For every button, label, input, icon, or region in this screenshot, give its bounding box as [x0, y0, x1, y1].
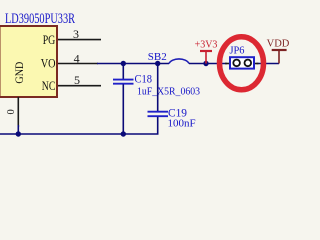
wire SB2 to JP6: [189, 63, 227, 65]
pin 5 (NC) stub: [58, 85, 101, 87]
svg-text:C18: C18: [135, 72, 153, 86]
svg-text:0: 0: [6, 109, 17, 114]
bottom ground rail wire: [0, 133, 159, 135]
svg-text:NC: NC: [42, 79, 56, 93]
junction dot +3V3: [203, 61, 208, 66]
pin 4 (VO): [58, 63, 98, 65]
junction dot C18/rail: [121, 131, 126, 136]
svg-text:+3V3: +3V3: [195, 40, 218, 51]
capacitor C18: [122, 64, 124, 80]
jumper JP6 pin stubs: [225, 63, 230, 65]
capacitor C19: [157, 64, 159, 112]
GND pin to rail wire: [17, 125, 19, 134]
svg-text:PG: PG: [43, 33, 56, 47]
svg-text:GND: GND: [14, 62, 26, 84]
svg-text:VDD: VDD: [267, 39, 290, 50]
power port VDD: [278, 50, 280, 64]
solder bridge SB2 (arc): [169, 59, 189, 64]
svg-text:1uF_X5R_0603: 1uF_X5R_0603: [137, 86, 200, 98]
svg-text:100nF: 100nF: [168, 118, 196, 130]
svg-text:VO: VO: [41, 56, 56, 70]
wire JP6 to VDD: [257, 63, 280, 65]
svg-text:LD39050PU33R: LD39050PU33R: [5, 11, 75, 27]
junction dot VO/C18: [121, 61, 126, 66]
junction dot GND/rail: [16, 131, 21, 136]
pin 3 (PG) stub: [58, 39, 101, 41]
power port +3V3: [205, 51, 207, 64]
JP6 post 2: [245, 60, 252, 67]
regulator U1 body (LD39050PU33R): [0, 26, 57, 97]
red annotation ellipse around JP6: [220, 37, 264, 90]
JP6 post 1: [233, 60, 240, 67]
jumper JP6 body: [230, 57, 254, 68]
wire VO to SB2: [97, 63, 169, 65]
junction dot C19 top: [155, 61, 160, 66]
svg-text:JP6: JP6: [230, 45, 245, 57]
GND pin (vertical): [17, 97, 19, 127]
